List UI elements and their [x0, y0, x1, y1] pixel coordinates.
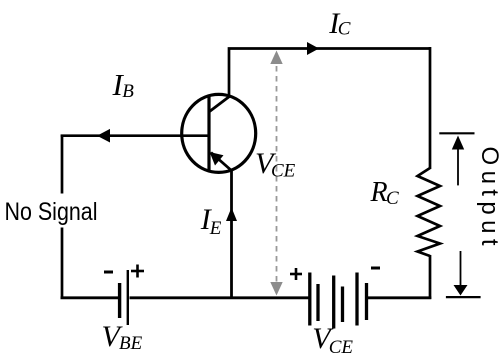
transistor Q1 emitter arrowhead (PNP) [210, 152, 224, 166]
dashed VCE top arrowhead [270, 51, 282, 65]
arrow IE on emitter lead [226, 208, 237, 222]
battery VCE cell3 long plate [355, 273, 358, 326]
battery VCE cell1 short plate [316, 284, 319, 321]
label VCE bottom [312, 322, 353, 358]
label RC [370, 177, 400, 209]
transistor Q1 body circle [182, 94, 256, 172]
svg-text:BE: BE [119, 333, 143, 354]
battery VCE cell1 long plate [308, 273, 311, 326]
label VCE mid [255, 147, 296, 182]
battery VCE cell3 short plate [365, 283, 368, 320]
transistor Q1 emitter stroke [211, 153, 232, 172]
svg-text:R: R [370, 177, 388, 208]
battery VBE plus sign [131, 265, 144, 278]
svg-text:C: C [386, 188, 399, 209]
dashed VCE bottom arrowhead [270, 282, 282, 296]
wire: collector to top rail [229, 49, 430, 98]
wire: bottom rail middle segment [130, 296, 309, 299]
svg-text:CE: CE [271, 161, 296, 182]
output lower tick bar [446, 296, 481, 298]
wire: bottom rail right segment [367, 296, 432, 299]
resistor RC zigzag [418, 168, 441, 256]
battery VCE cell2 short plate [341, 287, 344, 323]
output upper tick bar [439, 132, 474, 134]
svg-text:B: B [122, 81, 134, 102]
label IC [328, 7, 351, 40]
svg-text:C: C [338, 19, 351, 40]
arrow IC on top rail [307, 42, 319, 55]
label IE [200, 203, 222, 239]
svg-text:No Signal: No Signal [5, 198, 98, 226]
wire: emitter lead [230, 170, 233, 299]
output lower arrow [454, 251, 468, 296]
battery VCE cell2 long plate [332, 276, 335, 329]
svg-text:E: E [209, 218, 222, 239]
wire: bottom rail left segment [61, 296, 119, 299]
transistor Q1 collector stroke [210, 96, 231, 112]
arrow IB on base lead [97, 129, 110, 143]
battery VCE minus sign [371, 267, 380, 270]
battery VBE negative plate [118, 283, 121, 318]
svg-text:CE: CE [329, 337, 354, 358]
wire: right rail lower [429, 255, 432, 299]
wire: base lead [61, 134, 209, 137]
label IB [112, 67, 135, 102]
wire: left rail lower [61, 228, 64, 300]
output upper arrow [452, 136, 464, 186]
wire: left rail upper [61, 135, 64, 194]
label VBE [102, 320, 143, 354]
battery VBE minus sign [104, 271, 113, 274]
battery VBE positive plate [127, 270, 129, 325]
wire: right rail upper [429, 47, 432, 169]
transistor Q1 base bar [207, 97, 210, 172]
battery VCE plus sign [290, 268, 302, 280]
dashed VCE measurement line [276, 56, 278, 289]
